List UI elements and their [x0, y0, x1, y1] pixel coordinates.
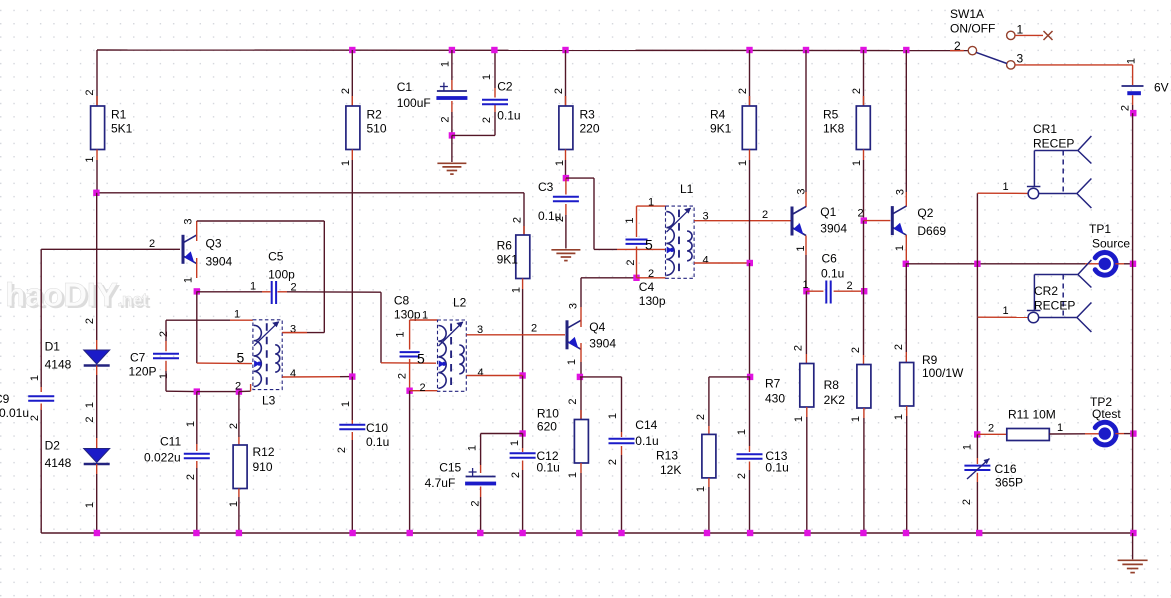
wire R10 feed [580, 377, 582, 420]
svg-text:130p: 130p [639, 294, 666, 308]
svg-text:TP1: TP1 [1089, 222, 1111, 236]
svg-text:2: 2 [988, 423, 994, 435]
svg-text:1: 1 [554, 160, 566, 166]
wire R12-ground rail [238, 489, 240, 534]
wire switch pin1 open [1015, 31, 1052, 40]
wire C1 bottom [451, 101, 453, 135]
wire C3 ground stem [565, 204, 567, 249]
capacitor C2 [481, 74, 521, 123]
ground under C1 [437, 163, 466, 174]
wire C15 branch [481, 434, 523, 474]
svg-text:2: 2 [84, 416, 96, 422]
wire R8 feed [863, 291, 865, 364]
svg-text:5: 5 [237, 350, 245, 366]
battery V1 6V [1120, 58, 1169, 111]
resistor R13 [656, 414, 716, 492]
capacitor C9 [0, 375, 54, 421]
junction R11 node [974, 431, 980, 437]
junction TP1 right [1130, 261, 1136, 267]
resistor R3 [553, 50, 600, 178]
svg-text:1: 1 [962, 444, 974, 450]
junction C6 pin2 [861, 288, 867, 294]
svg-text:1: 1 [1003, 181, 1009, 193]
svg-text:2: 2 [470, 500, 482, 506]
wire Q2 collector [905, 50, 907, 207]
svg-text:0.1u: 0.1u [497, 109, 520, 123]
watermark haoDIY.net [5, 277, 150, 316]
svg-text:1: 1 [509, 440, 521, 446]
resistor R9 [893, 344, 964, 420]
junction R10 ground [576, 530, 582, 536]
svg-text:2: 2 [158, 331, 170, 337]
junction L2.4/R6 [519, 372, 525, 378]
junction C12 ground [519, 530, 525, 536]
resistor R8 [824, 347, 871, 422]
svg-text:C1: C1 [397, 80, 413, 94]
ground bottom right [1118, 560, 1148, 572]
resistor R1 [84, 50, 133, 193]
wire L1 pin3 to Q1 base [694, 220, 792, 222]
svg-text:2: 2 [762, 209, 768, 221]
svg-text:2: 2 [336, 447, 348, 453]
svg-text:2: 2 [893, 344, 905, 350]
junction C7/C11 node [194, 388, 200, 394]
svg-text:C8: C8 [394, 294, 410, 308]
wire Q1 collector [805, 50, 807, 207]
svg-text:3: 3 [796, 188, 808, 194]
svg-text:0.1u: 0.1u [765, 461, 788, 475]
svg-text:3904: 3904 [820, 222, 847, 236]
svg-text:1: 1 [607, 413, 619, 419]
svg-text:2: 2 [554, 216, 566, 222]
svg-text:C9: C9 [0, 392, 10, 406]
wire D1-D2 [96, 366, 98, 449]
svg-text:1: 1 [1057, 422, 1063, 434]
svg-text:Q4: Q4 [589, 320, 605, 334]
svg-text:2: 2 [847, 280, 853, 292]
svg-text:CR1: CR1 [1033, 122, 1057, 136]
wire C8 bottom [409, 359, 411, 391]
svg-text:R11 10M: R11 10M [1008, 408, 1056, 422]
wire C4 node to L1 pin2 [637, 277, 666, 279]
wire C4 bottom [636, 247, 638, 278]
capacitor C3 [538, 178, 579, 223]
junction R3/C3 [563, 175, 569, 181]
svg-text:2: 2 [736, 473, 748, 479]
wire right rail [1132, 113, 1134, 533]
svg-text:2: 2 [235, 381, 241, 393]
wire Q2 base [864, 220, 891, 222]
junction C15 branch [519, 430, 525, 436]
svg-text:1: 1 [340, 401, 352, 407]
svg-text:R3: R3 [580, 108, 596, 122]
svg-text:C14: C14 [635, 418, 657, 432]
test point TP1 [1089, 222, 1130, 275]
wire C12 feed [522, 434, 524, 453]
svg-text:Q3: Q3 [206, 237, 222, 251]
svg-text:R2: R2 [367, 108, 383, 122]
junction C6 pin1 [803, 288, 809, 294]
junction rail C1 [449, 47, 455, 53]
wire C8 top to L2 pin1 [410, 320, 438, 350]
svg-text:1: 1 [185, 421, 197, 427]
svg-text:2: 2 [954, 39, 961, 53]
svg-text:910: 910 [253, 460, 273, 474]
junction C8 node [406, 388, 412, 394]
wire C5 to L2 tap [278, 292, 437, 363]
variable capacitor C16 [961, 444, 1023, 505]
svg-text:2: 2 [553, 88, 565, 94]
wire Q3 emitter to C5 [197, 291, 271, 293]
connector CR1 [1003, 122, 1092, 208]
junction rail R2 [349, 47, 355, 53]
svg-text:D669: D669 [917, 224, 946, 238]
junction rail Q1 [803, 47, 809, 53]
svg-text:120P: 120P [129, 365, 157, 379]
svg-text:C15: C15 [439, 461, 461, 475]
svg-text:100p: 100p [268, 268, 295, 282]
wire L3 pin2 stub [239, 384, 251, 392]
resistor R10 [537, 398, 589, 478]
wire C16 feed [976, 434, 978, 464]
svg-text:1: 1 [893, 414, 905, 420]
svg-text:RECEP: RECEP [1033, 137, 1074, 151]
capacitor C15 [425, 445, 497, 507]
svg-text:100uF: 100uF [397, 96, 431, 110]
wire C9-ground rail [40, 404, 42, 534]
svg-text:4.7uF: 4.7uF [425, 476, 456, 490]
wire rail to switch [950, 50, 964, 52]
junction D2 ground [94, 530, 100, 536]
svg-text:510: 510 [367, 122, 387, 136]
svg-text:1: 1 [736, 429, 748, 435]
svg-text:R10: R10 [537, 407, 559, 421]
svg-text:R7: R7 [765, 377, 781, 391]
junction R9 ground [903, 530, 909, 536]
wire C14-ground rail [621, 446, 623, 533]
junction R8 ground [860, 530, 866, 536]
wire L3 pin4 to R2 column [282, 376, 352, 378]
capacitor C6 [803, 252, 865, 304]
svg-text:R1: R1 [111, 108, 127, 122]
svg-text:4148: 4148 [45, 358, 72, 372]
svg-text:4: 4 [290, 368, 296, 380]
test point TP2 [1090, 395, 1121, 445]
wire R2col to C10 [351, 377, 353, 424]
svg-text:1: 1 [850, 416, 862, 422]
svg-text:1: 1 [481, 74, 493, 80]
capacitor C5 [250, 250, 297, 305]
wire Q4 emitter [580, 362, 582, 377]
wire L3 pin3 stub [282, 332, 307, 334]
svg-text:1: 1 [624, 217, 636, 223]
svg-text:1: 1 [894, 245, 906, 251]
svg-text:2: 2 [439, 116, 451, 122]
svg-text:2: 2 [961, 499, 973, 505]
svg-text:1: 1 [84, 502, 96, 508]
wire C15-ground rail [480, 487, 482, 534]
svg-text:SW1A: SW1A [950, 7, 984, 21]
svg-text:2: 2 [510, 472, 522, 478]
svg-text:2: 2 [793, 345, 805, 351]
svg-text:3904: 3904 [206, 255, 233, 269]
svg-text:1: 1 [158, 373, 170, 379]
svg-text:L3: L3 [262, 394, 276, 408]
capacitor C1 [397, 61, 468, 123]
junction right rail ground [1130, 530, 1136, 536]
svg-text:0.1u: 0.1u [537, 461, 560, 475]
svg-text:2: 2 [607, 459, 619, 465]
junction C16 ground [976, 530, 982, 536]
connector CR2 [1003, 260, 1092, 332]
svg-text:2: 2 [84, 89, 96, 95]
svg-text:2: 2 [858, 208, 864, 220]
svg-text:9K1: 9K1 [497, 253, 519, 267]
svg-text:C2: C2 [497, 80, 513, 94]
junction rail C2 [491, 47, 497, 53]
svg-text:9K1: 9K1 [710, 122, 732, 136]
svg-text:430: 430 [765, 392, 785, 406]
wire TP1 to right rail [1115, 263, 1132, 265]
svg-text:1K8: 1K8 [823, 122, 845, 136]
junction rail R3 [562, 47, 568, 53]
svg-text:2K2: 2K2 [824, 393, 846, 407]
wire C1 feed [451, 50, 453, 90]
junction C15 ground [477, 530, 483, 536]
junction C11 ground [193, 530, 199, 536]
wire R8-ground rail [863, 408, 865, 533]
svg-text:1: 1 [737, 160, 749, 166]
svg-text:6V: 6V [1154, 81, 1169, 95]
svg-text:2: 2 [695, 414, 707, 420]
capacitor C10 [336, 401, 389, 453]
wire Q3 base drop [40, 249, 42, 392]
svg-text:CR2: CR2 [1034, 284, 1058, 298]
svg-text:4: 4 [703, 255, 709, 267]
svg-text:2: 2 [84, 318, 96, 324]
svg-text:4: 4 [478, 367, 484, 379]
wire C7 top to L3 pin1 [166, 320, 253, 351]
wire L2 pin3 to Q4 base [466, 334, 565, 336]
transformer L3 [234, 309, 296, 408]
junction rail R5 [860, 47, 866, 53]
svg-text:5: 5 [417, 351, 425, 367]
capacitor C4 [624, 217, 666, 308]
wire battery down [1132, 105, 1134, 113]
wire Q2 emitter [905, 235, 907, 264]
svg-text:C3: C3 [538, 180, 554, 194]
wire R9 feed [905, 264, 907, 363]
svg-text:2: 2 [396, 373, 408, 379]
junction Q3 emitter [194, 288, 200, 294]
svg-text:3: 3 [568, 303, 580, 309]
svg-text:1: 1 [340, 160, 352, 166]
svg-text:ON/OFF: ON/OFF [950, 22, 995, 36]
junction C14 ground [618, 530, 624, 536]
resistor R6 [497, 193, 530, 293]
svg-text:1: 1 [183, 277, 195, 283]
wire R9-ground rail [906, 406, 908, 533]
node rail R1/D1 [96, 192, 524, 194]
wire C3 node to L1 tap [566, 178, 665, 249]
capacitor C14 [607, 413, 659, 465]
wire C1 node to C2 [452, 105, 495, 136]
wire CR2 feed [977, 316, 1028, 318]
svg-text:2: 2 [1120, 105, 1132, 111]
svg-text:0.01u: 0.01u [0, 406, 29, 420]
wire C12-ground rail [522, 461, 524, 534]
svg-text:2: 2 [625, 259, 637, 265]
svg-text:C10: C10 [366, 421, 388, 435]
wire V+ rail [97, 49, 968, 52]
wire C4 top to L1 pin1 [637, 206, 666, 237]
svg-text:2: 2 [737, 88, 749, 94]
wire L1 pin4 to R4 column [694, 262, 749, 264]
wire R5 down [863, 160, 865, 221]
wire R11 to TP2 [1049, 433, 1099, 435]
junction L3.4/R2 [349, 373, 355, 379]
wire R5col down [863, 221, 865, 292]
resistor R4 [710, 50, 756, 166]
ground under C3 [551, 250, 580, 261]
resistor R5 [823, 50, 870, 166]
svg-text:R13: R13 [656, 449, 678, 463]
svg-text:1: 1 [422, 310, 428, 322]
junction C4 node [633, 275, 639, 281]
svg-text:1: 1 [84, 156, 96, 162]
svg-text:0.022u: 0.022u [144, 451, 181, 465]
wire switch pin3 to battery [1015, 64, 1132, 66]
wire C7 node to L3 pin2 [197, 391, 239, 393]
svg-text:R6: R6 [497, 239, 513, 253]
svg-text:Q2: Q2 [917, 206, 933, 220]
junction Q2 emitter [903, 261, 909, 267]
wire R7 feed [805, 291, 807, 363]
svg-text:1: 1 [648, 197, 654, 209]
wire C8col-ground rail [409, 391, 411, 533]
junction C1/C2/gnd [449, 132, 455, 138]
svg-text:12K: 12K [660, 463, 681, 477]
diode D2 [45, 416, 110, 508]
svg-text:1: 1 [566, 359, 578, 365]
svg-text:3: 3 [895, 189, 907, 195]
wire R6 down [522, 289, 524, 376]
wire C13-ground rail [749, 462, 751, 534]
transistor Q2 [858, 189, 947, 251]
wire D1 feed [96, 193, 98, 350]
svg-text:1: 1 [29, 375, 41, 381]
svg-text:D2: D2 [45, 439, 61, 453]
wire CR1-CR2 column [976, 264, 978, 317]
svg-text:1: 1 [1126, 58, 1138, 64]
wire Q3 base [41, 248, 180, 250]
wire Q3 emitter drop to L3 tap [197, 291, 252, 363]
junction battery bottom [1130, 110, 1136, 116]
svg-text:R9: R9 [922, 353, 938, 367]
wire C13 feed [749, 377, 751, 452]
svg-text:C16: C16 [995, 462, 1017, 476]
svg-text:C4: C4 [639, 280, 655, 294]
resistor R11 [977, 408, 1063, 441]
wire C7 bottom [166, 361, 197, 392]
wire R2 down [351, 160, 353, 377]
svg-text:4148: 4148 [45, 456, 72, 470]
wire C16-ground rail [976, 473, 978, 533]
svg-text:1: 1 [439, 61, 451, 67]
svg-text:1: 1 [803, 279, 809, 291]
wire CR1 feed [977, 193, 1028, 264]
svg-text:2: 2 [648, 268, 654, 280]
svg-text:0.1u: 0.1u [635, 434, 658, 448]
wire C8 node to L2 pin2 [410, 390, 438, 392]
svg-text:Q1: Q1 [820, 205, 836, 219]
wire R10-ground rail [580, 463, 582, 533]
svg-text:1: 1 [695, 486, 707, 492]
svg-text:100/1W: 100/1W [922, 366, 964, 380]
capacitor C8 [394, 294, 421, 380]
resistor R7 [765, 345, 814, 422]
svg-text:L1: L1 [680, 182, 694, 196]
wire R6col down2 [522, 376, 524, 434]
transformer L2 [417, 296, 484, 395]
capacitor C11 [144, 421, 210, 480]
resistor R2 [340, 50, 387, 166]
wire C2 top [494, 50, 496, 98]
wire Q4 collector [581, 278, 637, 307]
wire Q3 collector loop [197, 221, 325, 333]
junction Q2 base [861, 217, 867, 223]
svg-text:5K1: 5K1 [111, 122, 133, 136]
svg-text:1: 1 [793, 416, 805, 422]
svg-text:2: 2 [481, 117, 493, 123]
svg-text:5: 5 [645, 237, 653, 253]
wire R13 top [709, 377, 750, 435]
wire C11 feed [196, 392, 198, 451]
wire R12 feed [238, 392, 240, 445]
svg-text:2: 2 [340, 88, 352, 94]
svg-text:1: 1 [1003, 305, 1009, 317]
svg-text:C6: C6 [822, 252, 838, 266]
capacitor C7 [129, 331, 180, 379]
svg-text:3: 3 [1017, 52, 1024, 66]
resistor R12 [228, 423, 275, 507]
wire L2 pin4 [466, 375, 522, 377]
junction CR1 drop [974, 261, 980, 267]
wire CR2col down [976, 317, 978, 434]
transformer L1 [645, 182, 709, 280]
svg-text:0.1u: 0.1u [821, 267, 844, 281]
junction C10 ground [349, 530, 355, 536]
wire R4col mid [749, 263, 751, 377]
wire C10-ground rail [351, 432, 353, 533]
svg-text:1: 1 [567, 472, 579, 478]
svg-text:D1: D1 [45, 340, 61, 354]
junction R13 ground [704, 530, 710, 536]
svg-text:2: 2 [850, 347, 862, 353]
wire C1 ground stem [451, 135, 453, 162]
svg-text:RECEP: RECEP [1034, 299, 1075, 313]
svg-text:2: 2 [185, 474, 197, 480]
wire Q1 emitter [805, 236, 807, 292]
wire Q4e to C14 [580, 377, 622, 437]
svg-text:1: 1 [395, 331, 407, 337]
junction R1/D1 [93, 190, 99, 196]
switch SW1A [950, 7, 1024, 69]
svg-text:1: 1 [795, 245, 807, 251]
junction rail Q2 [903, 47, 909, 53]
svg-text:C7: C7 [130, 351, 146, 365]
junction rail R4 [746, 47, 752, 53]
